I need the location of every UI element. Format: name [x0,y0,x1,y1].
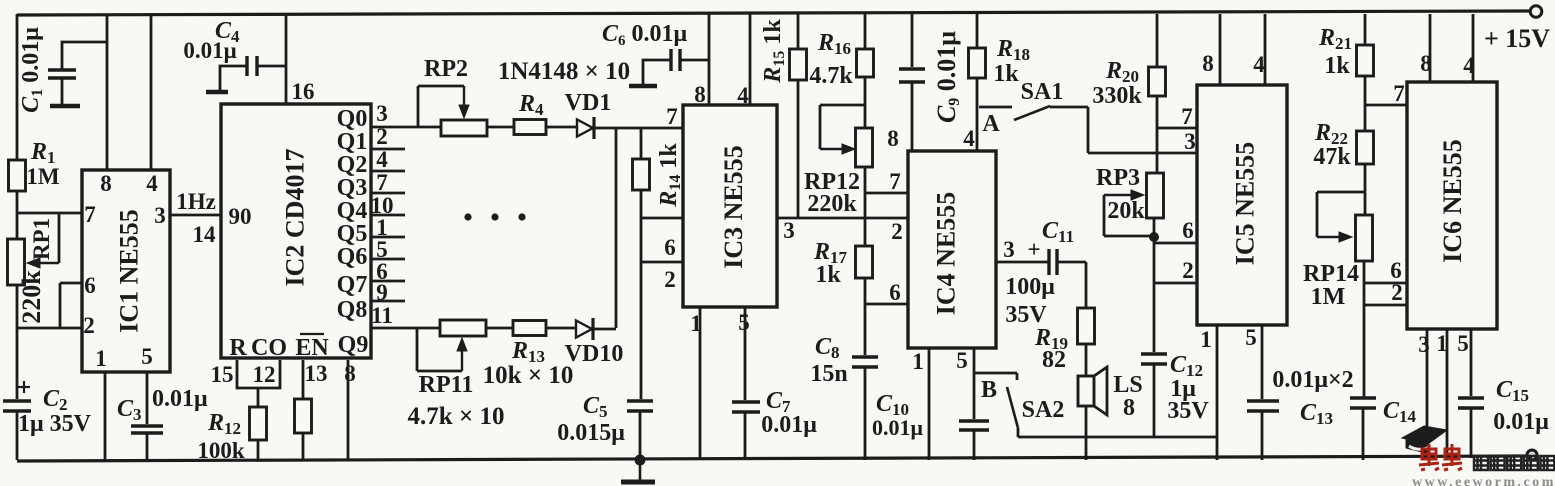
svg-text:0.01μ: 0.01μ [761,412,817,438]
svg-text:VD10: VD10 [565,341,624,367]
capacitor C2 electrolytic [3,399,31,403]
resistor R19 [1078,308,1095,344]
wire: RP3 to IC5 pins 6,2 and C12 [1153,218,1156,352]
junction dot at ground rail [635,455,646,466]
svg-text:8: 8 [1420,51,1432,76]
wire: SA2 ground bus [1018,436,1217,439]
wire: IC3 pin2 [641,261,683,264]
svg-text:9: 9 [376,280,388,305]
wire: IC5 pin5 to C13 [1261,325,1264,399]
wire: pin6 to pin2 [640,218,643,262]
svg-text:2: 2 [1182,258,1194,283]
svg-text:2: 2 [83,313,95,338]
svg-text:3: 3 [783,218,795,243]
terminal: ground output [1527,450,1537,460]
wire: IC2 pin16 to rail [285,14,288,104]
potentiometer RP3 [1147,173,1164,218]
svg-text:SA2: SA2 [1022,397,1065,423]
svg-text:IC5 NE555: IC5 NE555 [1231,142,1260,266]
svg-text:12: 12 [253,362,276,387]
wire: IC3 pin1 to ground rail [699,307,702,460]
svg-text:5: 5 [1457,331,1469,356]
svg-text:3: 3 [154,203,166,228]
watermark site name glyph blocks [1474,456,1488,470]
svg-text:1M: 1M [26,164,60,189]
svg-text:20k: 20k [1107,198,1145,224]
resistor R17 [856,246,873,278]
svg-text:14: 14 [193,222,217,247]
svg-text:www.eeworm.com: www.eeworm.com [1412,475,1555,486]
svg-text:330k: 330k [1092,83,1142,109]
wire: IC1 pin4 to rail [150,14,153,170]
svg-text:Q9: Q9 [338,332,369,358]
IC timer IC5 NE555 box [1197,85,1287,325]
svg-text:4: 4 [376,147,388,172]
svg-text:SA1: SA1 [1021,79,1064,105]
wire: +15V top supply rail [17,11,1529,15]
capacitor C8 [852,355,878,359]
capacitor C6 to ground [669,49,672,71]
svg-text:7: 7 [666,104,678,129]
wire: VD10 cathode to bus [593,328,616,331]
wire: IC4 pin1 to ground rail [928,348,931,460]
svg-text:8: 8 [344,361,356,386]
svg-text:+ 15V: + 15V [1484,24,1550,53]
resistor R20 [1156,14,1159,67]
wire: IC1 pin1 to ground rail [104,372,107,460]
svg-text:16: 16 [292,79,315,104]
wire: diode summing bus [615,128,618,328]
svg-text:8: 8 [1123,395,1135,421]
svg-text:RP2: RP2 [424,56,468,82]
wire: IC1 pin2 to RP1/C2 node [17,327,82,330]
svg-text:B: B [981,377,997,403]
svg-text:1: 1 [690,311,702,336]
diode VD10 [576,321,592,338]
svg-text:1k: 1k [815,262,841,288]
svg-text:IC4 NE555: IC4 NE555 [932,192,961,316]
svg-text:0.015μ: 0.015μ [557,420,625,446]
svg-text:4: 4 [1253,52,1265,77]
svg-text:8: 8 [694,82,706,107]
resistor R12a below pins 15/12 [257,388,260,407]
IC timer IC6 NE555 box [1407,82,1497,329]
wire: RP11 to R13 [486,327,513,330]
capacitor C13 [1247,399,1279,403]
wire: IC2 pin8 to ground rail [347,360,350,460]
svg-text:1: 1 [912,349,924,374]
svg-text:0.01μ: 0.01μ [872,415,924,440]
wire: left branch from rail down to R1 [16,14,19,160]
svg-text:C1 0.01μ: C1 0.01μ [18,27,46,113]
svg-text:CO: CO [251,335,287,361]
resistor R1 [9,160,26,191]
svg-text:C6 0.01μ: C6 0.01μ [602,21,688,49]
svg-text:3: 3 [1184,129,1196,154]
wire: RP3 wiper loop [1104,194,1131,196]
svg-text:7: 7 [889,169,901,194]
svg-text:Q7: Q7 [337,272,368,298]
capacitor C1 to ground [62,42,106,69]
capacitor C4 to ground [245,56,248,76]
wire: IC5 pin8 to rail [1219,14,1222,85]
wire: R22 to RP14 [1364,164,1367,215]
speaker LS [1078,376,1094,406]
capacitor C9 on pin8 feed [911,14,914,67]
svg-text:7: 7 [1181,104,1193,129]
resistor R22 [1357,131,1374,164]
resistor R4 [514,120,546,135]
svg-text:13: 13 [305,361,328,386]
resistor R13 [513,321,546,336]
watermark graduation cap [1402,426,1447,453]
svg-text:7: 7 [1393,81,1405,106]
wire: R17 to IC4 pin6 and C8 [864,278,867,355]
capacitor C3 [131,424,163,428]
resistor R16 [864,14,867,49]
svg-text:4: 4 [146,171,158,196]
wire: IC5 pin4 to rail [1264,14,1267,85]
svg-text:220k: 220k [807,191,857,217]
potentiometer RP1 [8,239,25,285]
resistor R21 [1364,14,1367,45]
wire: pin2 node to C5 [640,262,643,399]
wire: RP14 to IC6 pins 6,2 and C14 [1363,261,1366,398]
svg-text:IC2 CD4017: IC2 CD4017 [281,149,310,287]
svg-text:Q8: Q8 [337,297,368,323]
wire: IC6 pin1 to ground rail [1446,329,1449,458]
svg-text:0.01μ: 0.01μ [1493,409,1549,435]
wire: IC4 pin3 output [996,261,1048,264]
svg-text:100μ: 100μ [1005,274,1055,300]
resistor R14 [640,128,643,159]
wire: IC5 pin1 to ground rail [1216,325,1219,460]
svg-text:1: 1 [1436,331,1448,356]
repetition dots for Q1-Q7 channels [464,213,471,220]
svg-text:4.7k × 10: 4.7k × 10 [408,403,505,430]
wire: RP14 wiper loop [1317,191,1365,194]
wire: RP12 wiper loop [820,104,865,107]
wire: R21 to IC6 pin7 [1365,104,1407,107]
svg-text:0.01μ: 0.01μ [183,38,236,63]
wire: IC1 pin3 output to IC2 pin14 [170,214,221,217]
wire: ground bottom rail [17,456,1529,461]
svg-text:8: 8 [100,171,112,196]
svg-text:3: 3 [376,101,388,126]
svg-text:R14 1k: R14 1k [656,143,684,208]
wire: VD1 cathode to IC3 pin7 [594,127,683,130]
svg-text:11: 11 [371,303,393,328]
svg-text:2: 2 [664,267,676,292]
svg-text:7: 7 [376,170,388,195]
svg-text:1N4148 × 10: 1N4148 × 10 [498,58,630,85]
potentiometer RP11 [440,320,486,336]
svg-text:RP11: RP11 [419,372,474,398]
svg-text:5: 5 [1245,325,1257,350]
svg-text:Q6: Q6 [337,244,368,270]
wire: R4 to VD1 [546,126,577,129]
svg-text:4: 4 [1463,53,1475,78]
wire: IC6 pin5 to C15 [1470,329,1473,396]
svg-text:6: 6 [1182,218,1194,243]
svg-text:90: 90 [229,204,252,229]
wire: IC3 pin3 output to IC4 pin2 [777,217,908,220]
potentiometer RP12 [856,128,873,167]
terminal: +15V input [1530,6,1542,18]
svg-text:3: 3 [1418,332,1430,357]
svg-text:R15 1k: R15 1k [760,19,788,84]
wire: IC2 pin13 pulldown resistor [302,360,305,399]
svg-text:C9 0.01μ: C9 0.01μ [932,31,963,123]
capacitor C5 [627,399,653,403]
svg-text:15: 15 [211,362,234,387]
svg-text:R: R [229,335,247,361]
wire: Q0 output to RP2 [371,126,441,129]
svg-text:10k × 10: 10k × 10 [483,362,574,389]
wire: Q9 output to RP11 [371,327,440,330]
svg-text:1: 1 [1200,327,1212,352]
svg-text:47k: 47k [1313,144,1351,170]
svg-text:5: 5 [738,310,750,335]
svg-text:35V: 35V [1167,398,1209,424]
svg-text:5: 5 [956,348,968,373]
wire: IC1 pin7 to R1/RP1 junction [17,212,82,215]
svg-text:3: 3 [1003,237,1015,262]
wire: IC2 pin15/pin12 tied box [237,360,280,388]
potentiometer RP14 [1356,215,1373,261]
svg-text:1k: 1k [1324,53,1350,79]
wire: IC6 pin4 to rail [1472,14,1475,82]
svg-text:A: A [982,111,1000,137]
wire: RP2 wiper loop [417,86,420,127]
wire: RP1 wiper to pin7 node [40,262,59,264]
svg-text:4: 4 [963,126,975,151]
potentiometer RP2 [441,120,487,136]
svg-text:1μ 35V: 1μ 35V [18,411,92,437]
wire: C11 to R19 [1085,262,1088,308]
resistor R18 [976,14,979,48]
IC timer IC4 NE555 box [908,151,996,348]
wire: IC3 pin4 to rail [749,14,752,105]
svg-text:82: 82 [1042,347,1066,373]
wire: RP1 to C2 [16,285,19,399]
svg-text:2: 2 [891,219,903,244]
wire: RP2 to R4 [487,126,514,129]
svg-text:2: 2 [1391,280,1403,305]
wire: IC1 pin6 jog [60,282,82,285]
wire: IC3 pin5 to C7 [744,307,747,400]
wire: IC1 pin5 to C3 [146,372,149,424]
svg-text:8: 8 [887,126,899,151]
svg-text:1: 1 [95,346,107,371]
capacitor C10 [959,419,989,423]
svg-text:6: 6 [664,235,676,260]
wire: node B to SA2 [974,372,1005,375]
svg-text:0.01μ: 0.01μ [152,386,208,412]
wire: R19 to speaker [1085,344,1088,376]
svg-text:7: 7 [84,202,96,227]
junction dot RP3 bottom [1149,232,1159,242]
svg-text:4: 4 [737,83,749,108]
svg-text:1M: 1M [1311,284,1346,310]
wire: R20 to IC5 pin7 [1157,127,1197,130]
wire: R1 to RP1 [16,191,19,239]
svg-text:IC1 NE555: IC1 NE555 [115,209,144,333]
svg-text:1k: 1k [993,61,1019,87]
svg-text:8: 8 [1202,51,1214,76]
diode VD1 [577,120,593,137]
svg-text:EN: EN [295,335,329,361]
switch SA1 [979,106,1012,109]
svg-text:0.01μ×2: 0.01μ×2 [1272,367,1353,393]
svg-text:IC6 NE555: IC6 NE555 [1438,139,1467,263]
wire: IC6 pin3 down [1426,329,1429,455]
svg-text:RP1: RP1 [29,218,54,260]
capacitor C12 [1141,352,1167,356]
IC counter IC2 CD4017 box [221,104,371,358]
watermark bug characters [1419,444,1439,470]
svg-text:VD1: VD1 [565,90,612,116]
IC timer IC3 NE555 box [683,105,777,307]
capacitor C14 [1350,396,1376,400]
svg-text:6: 6 [84,273,96,298]
resistor R15 pull-up [797,14,800,49]
wire: IC6 pin8 to rail [1429,14,1432,82]
ground symbol [639,460,642,481]
wire: R13 to VD10 [546,327,576,330]
svg-text:RP3: RP3 [1096,165,1140,191]
wire: IC3 pin6 [641,217,683,220]
wire: IC3 pin8 to rail [708,14,711,105]
wire: RP12 to IC4 pin7 [864,167,867,246]
IC op IC1 NE555 box [82,170,170,372]
wire: C2 to ground rail [16,411,19,460]
svg-text:1Hz: 1Hz [176,189,216,214]
wire: RP11 wiper loop [416,328,419,371]
wire: IC1 pin8 to rail [106,14,109,170]
IC2 output pin stubs Q1-Q8 [371,148,405,151]
svg-text:IC3 NE555: IC3 NE555 [719,145,748,269]
svg-text:15n: 15n [810,361,847,387]
capacitor C7 [732,400,760,404]
wire: SA1 to IC5 pin3 [1087,107,1090,153]
svg-text:5: 5 [141,344,153,369]
switch SA2 arm [1007,387,1018,428]
svg-text:+: + [1027,237,1040,262]
svg-text:220k: 220k [17,270,46,324]
capacitor C15 [1458,396,1484,400]
wire: speaker to ground bus [1085,406,1088,460]
wire: IC4 pin5 to C10 [973,348,976,419]
svg-text:4.7k: 4.7k [809,63,853,89]
svg-text:6: 6 [889,280,901,305]
